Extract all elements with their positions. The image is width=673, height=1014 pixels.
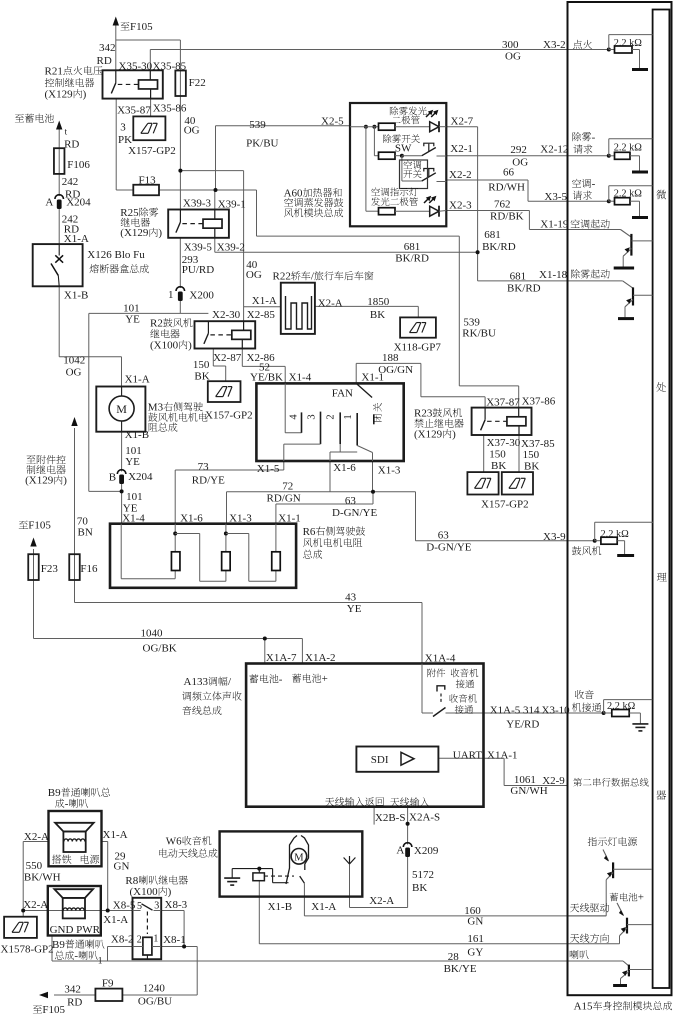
svg-text:X1578-GP2: X1578-GP2 [1, 943, 54, 955]
svg-text:539: 539 [249, 119, 266, 131]
svg-text:): ) [63, 475, 67, 487]
svg-text:5172: 5172 [412, 869, 434, 881]
svg-text:OG: OG [512, 156, 528, 168]
svg-text:1061: 1061 [514, 774, 536, 786]
svg-text:YE/BK: YE/BK [250, 372, 283, 384]
svg-text:YE: YE [125, 456, 140, 468]
svg-text:X3-10: X3-10 [542, 705, 571, 717]
svg-text:300: 300 [502, 39, 519, 51]
svg-text:(X129: (X129 [414, 429, 443, 441]
svg-text:F106: F106 [67, 159, 90, 171]
svg-text:): ) [168, 886, 172, 898]
svg-text:RD/BK: RD/BK [490, 211, 524, 223]
svg-text:A: A [396, 845, 404, 857]
svg-text:X37-87: X37-87 [486, 396, 520, 408]
svg-text:X1-A: X1-A [103, 914, 128, 926]
svg-text:X2-12: X2-12 [540, 143, 568, 155]
svg-text:X8-2: X8-2 [111, 933, 134, 945]
svg-text:X2-A: X2-A [24, 831, 49, 843]
svg-text:D-GN/YE: D-GN/YE [426, 542, 471, 554]
svg-text:X3-5: X3-5 [544, 191, 567, 203]
svg-text:28: 28 [448, 951, 460, 963]
svg-text:X2-7: X2-7 [451, 116, 474, 128]
svg-text:X1-19: X1-19 [540, 218, 569, 230]
svg-text:BK/YE: BK/YE [444, 963, 477, 975]
svg-text:RD: RD [97, 55, 112, 67]
svg-text:GY: GY [467, 947, 483, 959]
svg-text:R8: R8 [125, 875, 138, 887]
svg-text:-: - [65, 798, 69, 810]
svg-text:X8-5: X8-5 [113, 900, 136, 912]
svg-text:R25: R25 [120, 207, 139, 219]
svg-text:X1A-4: X1A-4 [425, 652, 456, 664]
svg-text:101: 101 [126, 491, 143, 503]
svg-text:X126 Blo Fu: X126 Blo Fu [87, 249, 145, 261]
svg-text:GN: GN [467, 916, 483, 928]
svg-text:43: 43 [345, 592, 357, 604]
svg-text:F105: F105 [28, 520, 51, 532]
svg-text:X1-A: X1-A [252, 295, 277, 307]
svg-text:BN: BN [78, 527, 93, 539]
svg-text:X1-5: X1-5 [257, 463, 280, 475]
svg-text:681: 681 [510, 270, 526, 282]
svg-text:550: 550 [26, 860, 43, 872]
svg-text:): ) [158, 227, 162, 239]
svg-text:63: 63 [345, 495, 357, 507]
svg-text:): ) [83, 89, 87, 101]
svg-text:X1-1: X1-1 [278, 512, 301, 524]
svg-text:762: 762 [494, 199, 511, 211]
svg-text:X35-87: X35-87 [117, 105, 151, 117]
svg-text:F9: F9 [102, 978, 114, 990]
svg-text:1: 1 [153, 934, 158, 945]
svg-text:2.2 kΩ: 2.2 kΩ [614, 143, 643, 154]
svg-text:X2-85: X2-85 [247, 309, 276, 321]
svg-text:R23: R23 [414, 408, 433, 420]
svg-text:X3-2: X3-2 [543, 39, 566, 51]
svg-text:X2-1: X2-1 [450, 143, 473, 155]
svg-text:161: 161 [467, 933, 484, 945]
svg-text:X2-5: X2-5 [321, 116, 344, 128]
svg-text:OG/BK: OG/BK [143, 643, 177, 655]
svg-text:FAN: FAN [332, 388, 353, 400]
svg-text:3: 3 [154, 901, 159, 912]
svg-text:2.2 kΩ: 2.2 kΩ [614, 189, 643, 200]
svg-text:X157-GP2: X157-GP2 [128, 145, 176, 157]
svg-text:A60: A60 [284, 187, 303, 199]
svg-text:X209: X209 [414, 845, 439, 857]
svg-text:RD/GN: RD/GN [267, 493, 301, 505]
svg-text:1040: 1040 [141, 628, 164, 640]
svg-text:X1-3: X1-3 [378, 465, 401, 477]
svg-text:RD: RD [67, 997, 82, 1009]
svg-text:X1A-1: X1A-1 [487, 750, 518, 762]
svg-text:681: 681 [484, 229, 501, 241]
svg-text:PK/BU: PK/BU [246, 138, 278, 150]
svg-text:M3: M3 [148, 402, 164, 414]
svg-text:D-GN/YE: D-GN/YE [332, 507, 377, 519]
svg-text:GN: GN [114, 861, 130, 873]
svg-text:1850: 1850 [367, 296, 390, 308]
svg-text:BK: BK [491, 460, 506, 472]
svg-text:X37-30: X37-30 [487, 437, 521, 449]
svg-text:-: - [592, 132, 596, 144]
svg-text:150: 150 [489, 448, 506, 460]
svg-text:342: 342 [99, 42, 116, 54]
svg-text:R6: R6 [303, 526, 316, 538]
svg-text:X200: X200 [189, 290, 214, 302]
svg-text:SW: SW [395, 143, 412, 155]
svg-text:1: 1 [168, 289, 174, 301]
svg-text:X2-A: X2-A [318, 298, 343, 310]
svg-text:X8-1: X8-1 [163, 934, 186, 946]
svg-text:X2-A: X2-A [369, 895, 394, 907]
svg-text:OG: OG [66, 367, 82, 379]
svg-text:): ) [188, 339, 192, 351]
svg-text:A: A [45, 197, 53, 209]
svg-text:OG: OG [184, 125, 200, 137]
svg-text:342: 342 [64, 983, 81, 995]
svg-text:X2-3: X2-3 [449, 200, 472, 212]
svg-text:X2-A: X2-A [23, 899, 48, 911]
svg-text:X35-85: X35-85 [153, 61, 187, 73]
svg-text:1: 1 [343, 414, 354, 419]
svg-text:150: 150 [523, 449, 540, 461]
svg-text:72: 72 [282, 481, 293, 493]
svg-text:X204: X204 [128, 471, 153, 483]
svg-text:GND PWR: GND PWR [50, 924, 101, 936]
svg-text:X1-A: X1-A [125, 374, 150, 386]
svg-text:150: 150 [193, 359, 210, 371]
svg-text:X1-4: X1-4 [122, 512, 145, 524]
svg-text:X37-86: X37-86 [522, 396, 556, 408]
svg-text:GN/WH: GN/WH [510, 785, 547, 797]
svg-text:M: M [116, 402, 127, 416]
svg-text:BK/WH: BK/WH [24, 872, 61, 884]
svg-text:(X100: (X100 [130, 886, 159, 898]
svg-text:BK/RD: BK/RD [507, 283, 541, 295]
svg-text:4: 4 [289, 414, 300, 420]
svg-text:OG/BU: OG/BU [138, 996, 172, 1008]
svg-text:X1A-7: X1A-7 [266, 652, 297, 664]
svg-text:R2: R2 [150, 318, 163, 330]
svg-text:BK: BK [194, 371, 209, 383]
svg-text:X157-GP2: X157-GP2 [205, 409, 253, 421]
svg-text:X39-3: X39-3 [183, 198, 212, 210]
svg-text:X35-86: X35-86 [153, 103, 187, 115]
svg-text:YE: YE [347, 603, 362, 615]
svg-text:2.2 kΩ: 2.2 kΩ [607, 701, 636, 712]
svg-text:X1-4: X1-4 [289, 372, 312, 384]
svg-text:X1-3: X1-3 [229, 512, 252, 524]
svg-text:3: 3 [120, 122, 126, 134]
svg-text:B: B [109, 472, 116, 484]
svg-text:UART: UART [453, 750, 483, 762]
svg-text:1240: 1240 [143, 983, 166, 995]
svg-text:F16: F16 [80, 563, 98, 575]
svg-text:(X100: (X100 [150, 339, 179, 351]
svg-text:681: 681 [404, 241, 421, 253]
svg-text:X1-6: X1-6 [333, 462, 356, 474]
svg-text:RD: RD [64, 138, 79, 150]
svg-text:2: 2 [326, 414, 337, 419]
svg-text:F22: F22 [189, 77, 206, 89]
svg-text:SDI: SDI [371, 754, 389, 766]
svg-text:+: + [322, 673, 328, 685]
svg-text:X1-B: X1-B [64, 290, 88, 302]
svg-text:X1-18: X1-18 [539, 269, 568, 281]
svg-text:5: 5 [137, 901, 142, 912]
svg-text:66: 66 [503, 167, 515, 179]
svg-text:X1-6: X1-6 [180, 512, 203, 524]
svg-text:RK/BU: RK/BU [462, 328, 496, 340]
svg-text:BK/RD: BK/RD [395, 253, 429, 265]
svg-text:-: - [592, 178, 596, 190]
svg-text:3: 3 [307, 414, 318, 419]
svg-text:292: 292 [510, 144, 527, 156]
svg-text:F23: F23 [41, 563, 59, 575]
svg-text:F105: F105 [130, 21, 153, 33]
svg-text:A15: A15 [574, 1001, 593, 1013]
svg-text:A133: A133 [184, 676, 209, 688]
svg-text:PU/RD: PU/RD [182, 264, 214, 276]
svg-text:X204: X204 [66, 197, 91, 209]
svg-text:): ) [452, 429, 456, 441]
svg-text:X1A-5: X1A-5 [490, 705, 521, 717]
svg-text:(X129: (X129 [25, 475, 54, 487]
svg-text:R22: R22 [273, 271, 291, 283]
svg-text:YE: YE [125, 313, 140, 325]
svg-text:188: 188 [382, 352, 399, 364]
svg-text:B9: B9 [48, 787, 61, 799]
svg-text:W6: W6 [166, 836, 182, 848]
svg-text:F13: F13 [139, 174, 157, 186]
svg-text:X2A-S: X2A-S [409, 812, 440, 824]
svg-text:M: M [294, 853, 304, 864]
svg-text:X118-GP7: X118-GP7 [394, 342, 442, 354]
svg-text:-: - [74, 950, 78, 962]
svg-text:BK: BK [370, 309, 385, 321]
svg-text:+: + [638, 892, 644, 904]
svg-text:B9: B9 [52, 939, 65, 951]
svg-text:X1A-2: X1A-2 [305, 652, 336, 664]
svg-text:X39-1: X39-1 [218, 199, 246, 211]
svg-text:R21: R21 [45, 65, 63, 77]
svg-text:X2-87: X2-87 [213, 352, 242, 364]
svg-text:X1-A: X1-A [103, 829, 128, 841]
svg-text:OG: OG [246, 269, 262, 281]
svg-text:X1-A: X1-A [311, 901, 336, 913]
svg-text:BK: BK [524, 460, 539, 472]
svg-text:X1-B: X1-B [125, 429, 149, 441]
svg-text:BK/RD: BK/RD [482, 241, 516, 253]
svg-text:X35-30: X35-30 [119, 61, 153, 73]
svg-text:RD/WH: RD/WH [488, 182, 525, 194]
svg-text:X2-30: X2-30 [212, 309, 241, 321]
svg-text:X1-B: X1-B [268, 901, 292, 913]
svg-text:X2B-S: X2B-S [375, 812, 406, 824]
svg-text:X3-9: X3-9 [543, 531, 566, 543]
svg-text:73: 73 [198, 461, 210, 473]
svg-text:(X129: (X129 [120, 227, 149, 239]
svg-text:X1-1: X1-1 [361, 372, 384, 384]
svg-text:63: 63 [438, 530, 450, 542]
svg-text:OG: OG [505, 51, 521, 63]
svg-text:242: 242 [62, 176, 79, 188]
svg-text:1: 1 [98, 957, 103, 967]
svg-text:BK: BK [412, 882, 427, 894]
svg-text:-: - [279, 674, 283, 686]
svg-text:X39-2: X39-2 [217, 242, 245, 254]
svg-text:YE/RD: YE/RD [506, 719, 539, 731]
svg-text:X1-A: X1-A [64, 233, 89, 245]
svg-text:(X129: (X129 [45, 89, 74, 101]
svg-text:X39-5: X39-5 [184, 242, 213, 254]
svg-text:2.2 kΩ: 2.2 kΩ [601, 529, 630, 540]
svg-text:2: 2 [137, 935, 142, 946]
svg-text:X157-GP2: X157-GP2 [481, 499, 529, 511]
svg-text:2.2 kΩ: 2.2 kΩ [614, 38, 643, 49]
svg-text:314: 314 [523, 705, 540, 717]
svg-text:RD/YE: RD/YE [192, 475, 225, 487]
svg-text:F105: F105 [42, 1004, 65, 1014]
svg-text:X2-2: X2-2 [449, 169, 472, 181]
svg-text:1042: 1042 [63, 354, 85, 366]
svg-text:X8-3: X8-3 [165, 899, 188, 911]
